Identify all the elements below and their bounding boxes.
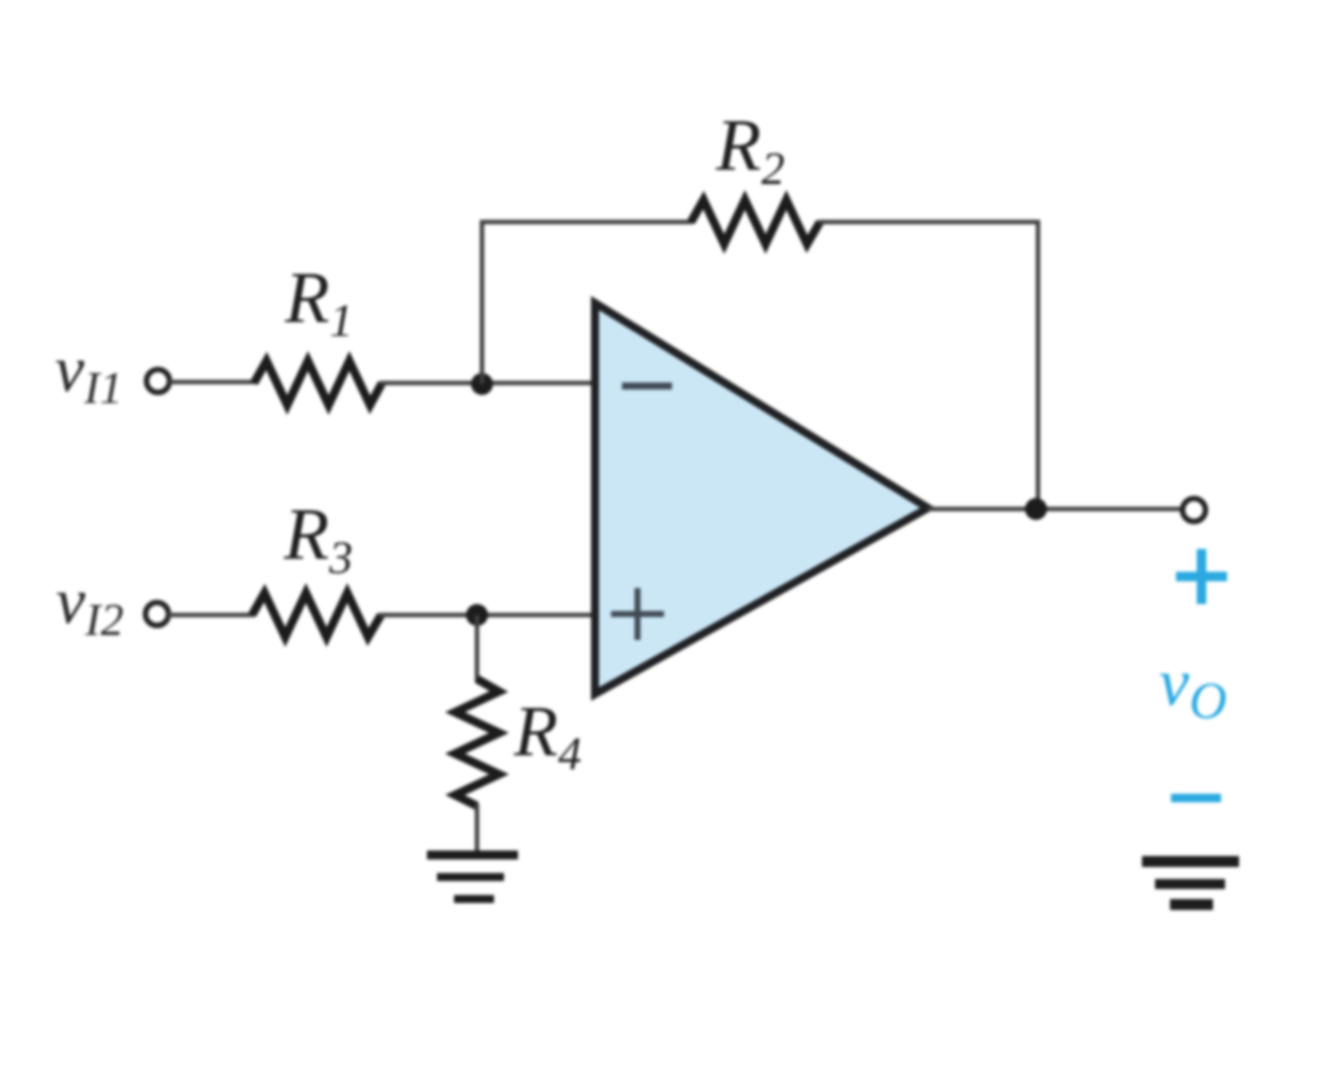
- resistor R3: [252, 593, 381, 637]
- wire vI1 terminal to R1: [169, 380, 256, 384]
- wire node B down to R4: [475, 615, 479, 682]
- output junction dot: [1025, 498, 1047, 520]
- svg-text:R1: R1: [284, 257, 353, 347]
- op-amp minus sign (inverting input marker): [622, 383, 672, 390]
- svg-text:vI1: vI1: [55, 333, 123, 413]
- svg-text:R2: R2: [715, 105, 785, 195]
- node A junction dot (inverting input node): [471, 373, 493, 395]
- op-amp U1: [595, 303, 928, 694]
- vO plus sign: [1176, 549, 1227, 604]
- wire R3 to non-inverting node: [379, 613, 597, 617]
- wire node A up to feedback: [480, 220, 484, 384]
- vO minus sign: [1171, 794, 1221, 803]
- node B junction dot (non-inverting input node): [466, 604, 488, 626]
- wire feedback top left: [480, 220, 693, 224]
- resistor R4: [455, 679, 499, 806]
- ground (output reference): [1142, 856, 1239, 910]
- wire R1 to inverting node: [380, 381, 597, 385]
- svg-text:vO: vO: [1159, 644, 1227, 730]
- resistor R2: [691, 200, 820, 244]
- ground (under R4): [427, 851, 518, 904]
- wire vI2 terminal to R3: [168, 613, 254, 617]
- wire R4 to ground: [475, 804, 479, 853]
- svg-text:vI2: vI2: [56, 565, 124, 645]
- resistor R1: [254, 361, 382, 405]
- wire feedback top right: [818, 220, 1040, 224]
- node vI1 input terminal: [147, 370, 170, 393]
- op-amp plus sign (non-inverting input marker): [611, 588, 664, 640]
- svg-text:R3: R3: [283, 494, 353, 584]
- wire feedback right vertical down to output: [1036, 220, 1040, 509]
- svg-text:R4: R4: [513, 691, 581, 780]
- node vI2 input terminal: [146, 603, 169, 626]
- wire op-amp output: [928, 507, 1183, 511]
- output terminal vO: [1183, 499, 1206, 522]
